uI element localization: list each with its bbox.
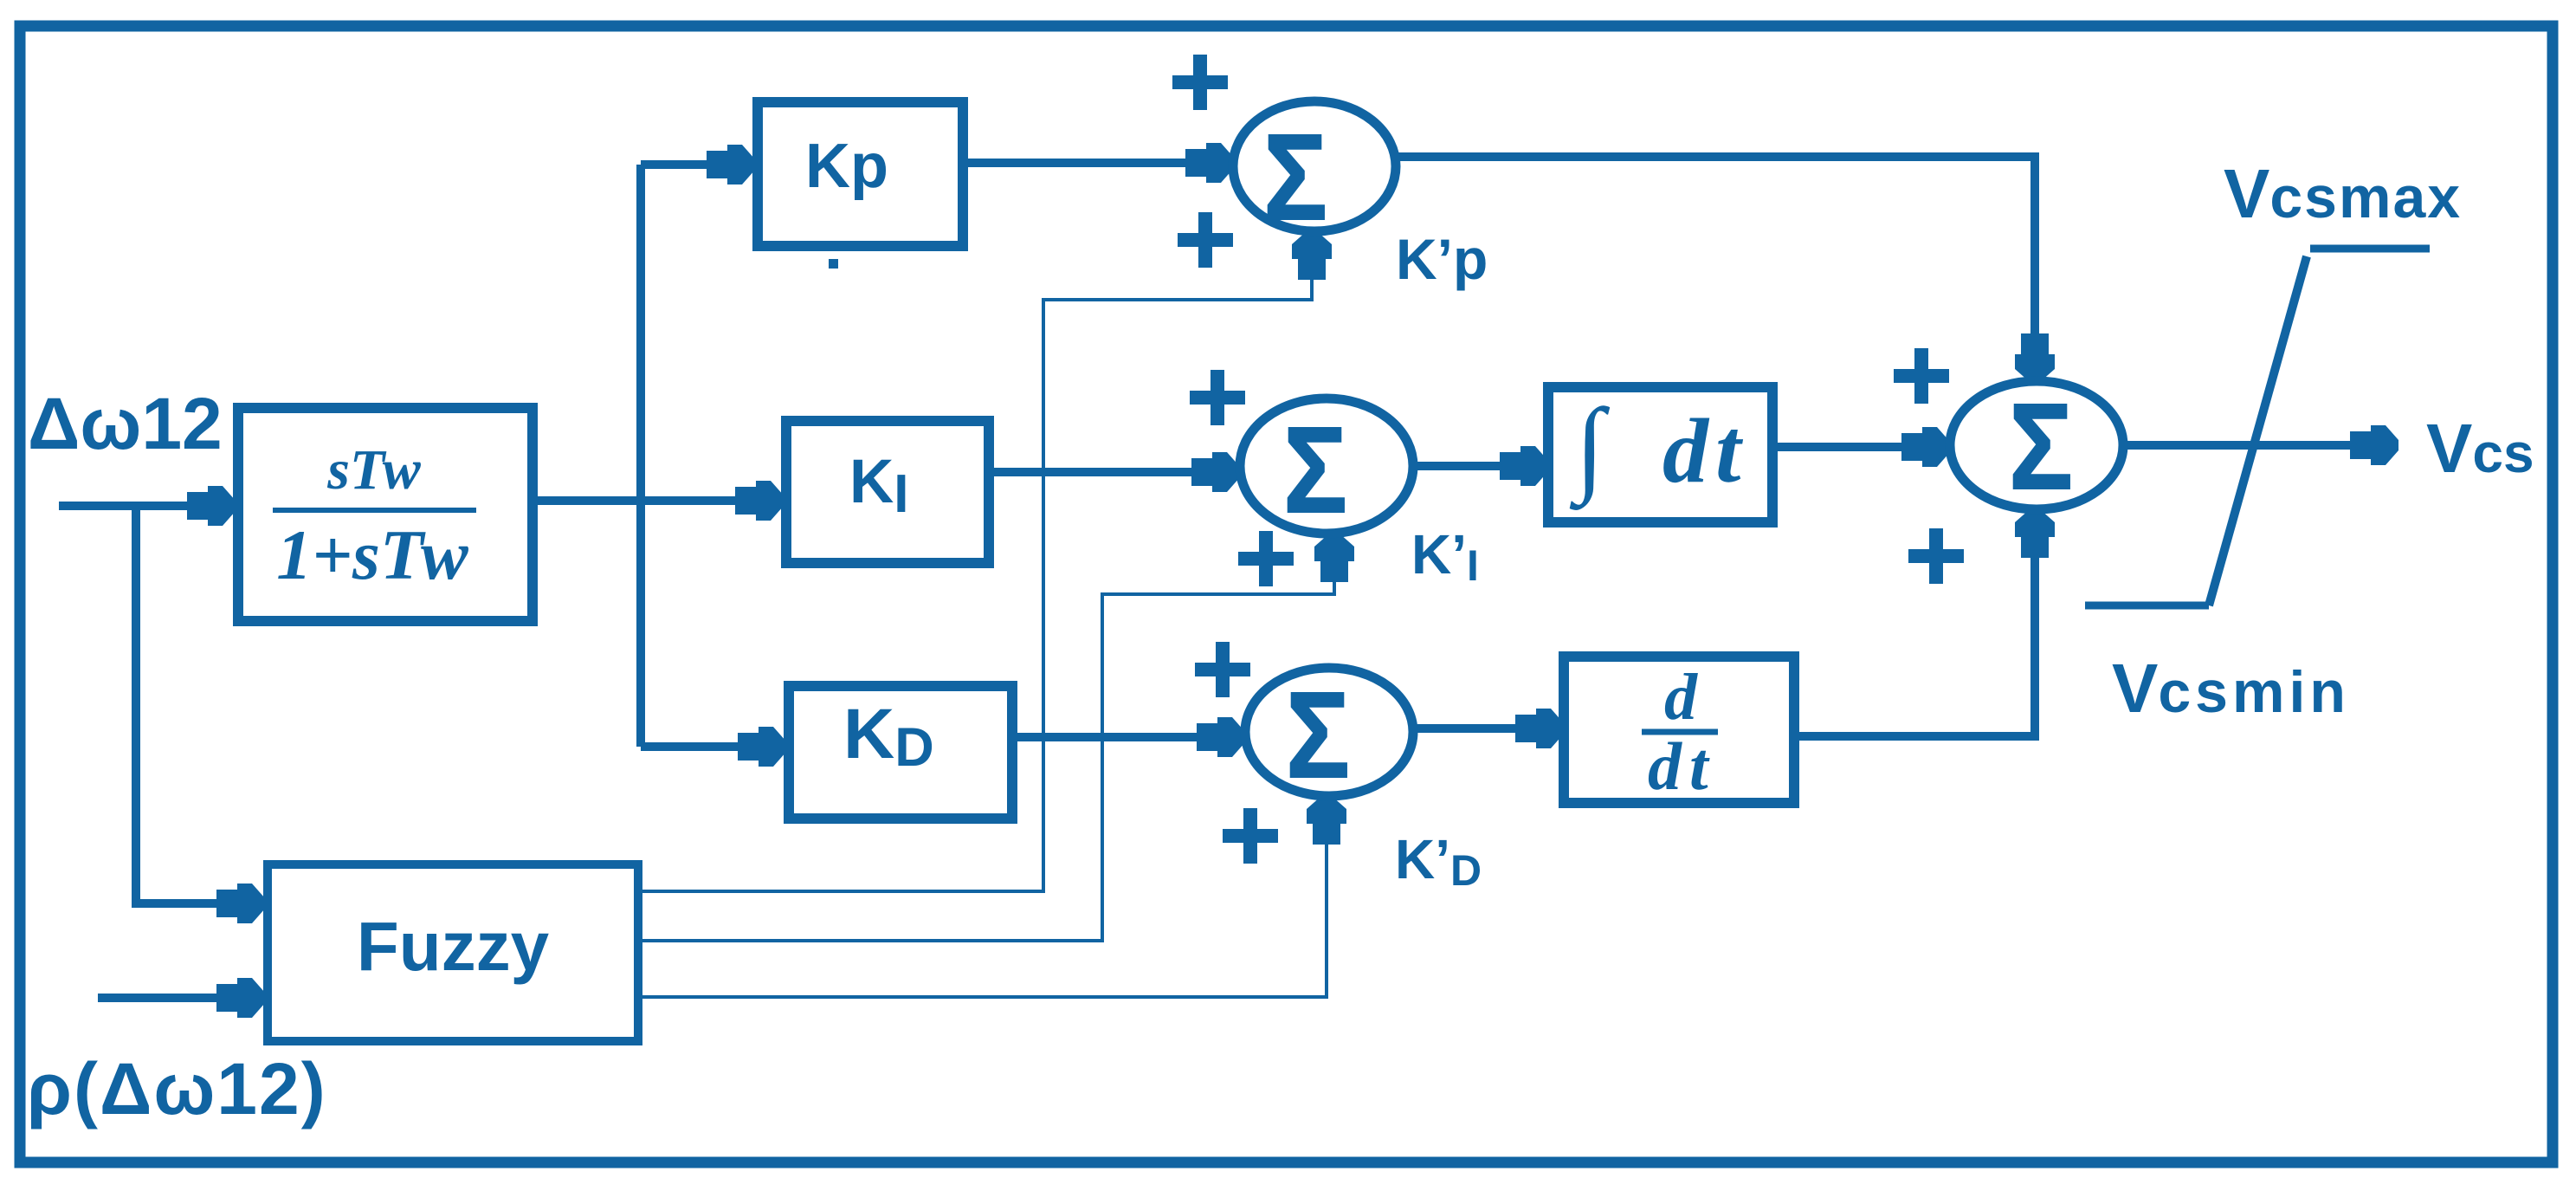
block Kp [758,102,963,246]
wire sum1 to final sum top [1397,157,2035,346]
arrowhead into sum1 [1185,143,1234,183]
plus sign sum3 lower [1223,808,1278,864]
block Fuzzy [268,864,638,1041]
arrowhead into integrator [1500,446,1548,486]
arrowhead into final sum bottom [2015,509,2055,558]
arrowhead fuzzy3 into sum3 bottom [1307,796,1346,845]
stray dot [829,259,838,269]
svg-text:dt: dt [1648,728,1716,804]
svg-text:Σ: Σ [1286,667,1350,804]
plus sign final sum upper [1894,348,1949,404]
wire integrator to final sum [1772,443,1933,451]
label rho(Dw12) [27,1048,327,1130]
arrowhead into KD [738,727,786,767]
svg-text:Σ: Σ [2009,379,2073,515]
plus sign sum1 upper [1172,55,1228,110]
arrowhead fuzzy2 into sum2 bottom [1314,534,1354,582]
plus sign sum3 upper [1195,642,1250,697]
block KD [789,686,1012,819]
svg-text:Fuzzy: Fuzzy [357,908,550,985]
svg-text:K’I: K’I [1411,523,1479,590]
label Dw12 [28,383,223,464]
summing junction sum2 [1240,398,1413,539]
label Vcsmax [2224,155,2462,232]
arrowhead output Vcs [2350,425,2398,465]
svg-text:K’D: K’D [1395,828,1482,895]
wire fuzzy out2 to sum2 bottom [638,563,1334,941]
arrowhead into KI [735,481,784,521]
saturation limiter symbol [2085,249,2430,605]
block washout sTw/(1+sTw) [238,408,533,621]
svg-text:sTw: sTw [326,438,422,502]
wire fuzzy out3 to sum3 bottom [638,827,1327,997]
arrowhead into fuzzy input1 [216,884,265,923]
wire KD to sum3 [1012,733,1228,741]
summing junction final sum [1950,379,2123,515]
wire sum2 to integrator [1413,462,1531,470]
wire KI to sum2 [989,468,1223,476]
svg-text:Σ: Σ [1263,109,1327,246]
svg-text:1+sTw: 1+sTw [276,515,468,594]
wire trunk to Kp [641,160,740,169]
svg-text:Kp: Kp [805,132,888,201]
wire branch down to Fuzzy [136,502,249,903]
arrowhead into sum3 [1197,717,1245,757]
wire Kp to sum1 [963,159,1217,167]
svg-text:KD: KD [843,695,934,778]
svg-text:Vcsmax: Vcsmax [2224,155,2462,232]
svg-text:∫: ∫ [1569,386,1611,510]
wire fuzzy out1 to sum1 bottom [638,260,1312,891]
arrowhead into final sum top [2015,333,2055,382]
plus sign sum1 lower [1178,212,1233,268]
plus sign sum2 lower [1238,531,1294,586]
arrowhead fuzzy1 into sum1 bottom [1292,231,1332,280]
arrowhead into derivative [1515,709,1564,748]
wire input Dw12 [59,502,218,510]
svg-text:Σ: Σ [1283,402,1347,539]
arrowhead into washout [187,486,236,526]
wire sum3 to derivative [1413,724,1546,733]
wire washout output to KI [533,496,769,505]
svg-text:Vcs: Vcs [2426,410,2534,487]
wire second Fuzzy input [98,994,249,1002]
wire derivative to final sum bottom [1794,544,2035,736]
block integrator [1548,386,1772,522]
plus sign final sum lower [1908,528,1964,584]
summing junction sum3 [1245,667,1413,804]
arrowhead into Kp [707,145,755,184]
label K'I [1411,523,1479,590]
svg-text:KI: KI [849,448,909,524]
block derivative [1564,657,1794,804]
label K'D [1395,828,1482,895]
svg-text:K’p: K’p [1396,227,1488,291]
label K'p [1396,227,1488,291]
arrowhead into fuzzy input2 [216,978,265,1018]
svg-text:Δω12: Δω12 [28,383,223,464]
svg-text:d: d [1664,661,1698,734]
svg-text:dt: dt [1662,400,1747,502]
arrowhead into sum2 [1191,452,1240,492]
svg-text:ρ(Δω12): ρ(Δω12) [27,1048,327,1130]
svg-text:Vcsmin: Vcsmin [2112,650,2350,727]
summing junction sum1 [1233,101,1396,246]
label Vcs [2426,410,2534,487]
wire final sum output Vcs [2123,441,2381,450]
wire trunk vertical [636,165,645,747]
block KI [786,421,989,563]
wire trunk to KD [641,742,772,751]
label Vcsmin [2112,650,2350,727]
plus sign sum2 upper [1190,370,1245,425]
arrowhead into final sum left [1901,427,1950,467]
